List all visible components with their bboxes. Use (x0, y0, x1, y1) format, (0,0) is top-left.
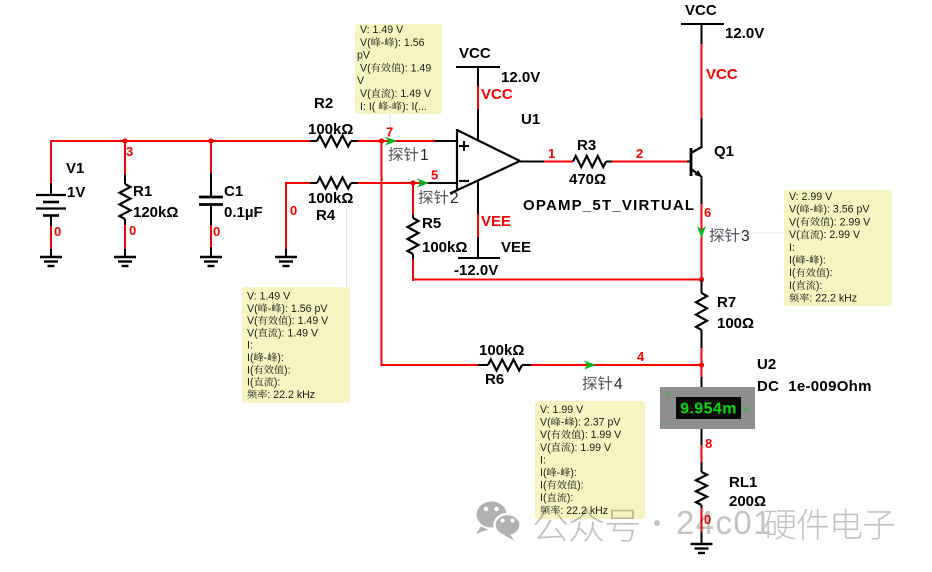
svg-text:3: 3 (741, 228, 750, 245)
svg-text:):: ): (819, 255, 825, 267)
svg-text:100Ω: 100Ω (717, 315, 754, 332)
svg-text:24c01: 24c01 (676, 504, 773, 541)
svg-text:12.0V: 12.0V (501, 69, 540, 86)
svg-text:2: 2 (636, 146, 643, 161)
svg-text:): 1.99 V: ): 1.99 V (581, 429, 622, 441)
svg-text:V(: V( (360, 88, 371, 100)
svg-text:V(: V( (247, 315, 258, 327)
svg-text:):: ): (277, 352, 283, 364)
svg-text:VCC: VCC (685, 2, 717, 19)
svg-text:): 1.49 V: ): 1.49 V (278, 327, 319, 339)
svg-text:R2: R2 (314, 95, 333, 112)
svg-text:0: 0 (54, 224, 61, 239)
svg-text:I(: I( (540, 492, 547, 504)
svg-text:):: ): (274, 377, 280, 389)
svg-text:4: 4 (614, 376, 623, 393)
svg-text:-: - (268, 303, 272, 315)
svg-text:R3: R3 (577, 137, 596, 154)
svg-text:RL1: RL1 (729, 474, 757, 491)
svg-text:3: 3 (126, 144, 133, 159)
svg-text:V(: V( (360, 62, 371, 74)
svg-text:): 3.56 pV: ): 3.56 pV (824, 204, 871, 216)
svg-text:V: 1.99 V: V: 1.99 V (540, 404, 584, 416)
svg-text:V(: V( (540, 417, 551, 429)
svg-text:I:: I: (247, 340, 253, 352)
svg-text:VEE: VEE (481, 213, 511, 230)
svg-text:1: 1 (420, 147, 429, 164)
svg-text:VCC: VCC (706, 66, 738, 83)
svg-text:: 22.2 kHz: : 22.2 kHz (809, 293, 857, 305)
svg-text:9.954m: 9.954m (680, 401, 737, 418)
svg-text:I(: I( (789, 280, 796, 292)
svg-text:VCC: VCC (459, 45, 491, 62)
svg-text:0: 0 (290, 203, 297, 218)
svg-text:5: 5 (431, 168, 438, 183)
svg-text:I(: I( (540, 467, 547, 479)
svg-text:): 1.49: ): 1.49 (401, 62, 431, 74)
svg-text:):: ): (816, 280, 822, 292)
svg-text:): 2.37 pV: ): 2.37 pV (575, 417, 622, 429)
svg-text:VEE: VEE (501, 239, 531, 256)
svg-text:Q1: Q1 (714, 143, 734, 160)
svg-text:U1: U1 (521, 111, 540, 128)
svg-text:R1: R1 (133, 183, 152, 200)
svg-text:U2: U2 (757, 356, 776, 373)
svg-text:I(: I( (247, 364, 254, 376)
svg-text:A: A (744, 404, 750, 414)
svg-text:100kΩ: 100kΩ (308, 121, 353, 138)
svg-text:: 22.2 kHz: : 22.2 kHz (560, 505, 608, 517)
svg-text:I(: I( (247, 377, 254, 389)
svg-text:0.1µF: 0.1µF (224, 204, 263, 221)
svg-text:V: 1.49 V: V: 1.49 V (247, 291, 291, 303)
svg-text:VCC: VCC (481, 86, 513, 103)
svg-text:2: 2 (450, 190, 459, 207)
svg-text:): 1.49 V: ): 1.49 V (391, 88, 432, 100)
svg-text:-: - (806, 255, 810, 267)
svg-text:-: - (810, 204, 814, 216)
svg-text:I(: I( (540, 480, 547, 492)
svg-text:8: 8 (705, 436, 712, 451)
svg-text:V: 1.49 V: V: 1.49 V (360, 24, 404, 36)
svg-text:R6: R6 (485, 371, 504, 388)
svg-text:: 22.2 kHz: : 22.2 kHz (267, 389, 315, 401)
svg-text:):: ): (567, 492, 573, 504)
svg-text:470Ω: 470Ω (569, 171, 606, 188)
svg-text:): 1.49 V: ): 1.49 V (288, 315, 329, 327)
svg-text:120kΩ: 120kΩ (133, 204, 178, 221)
svg-text:I(: I( (247, 352, 254, 364)
svg-text:V(: V( (360, 37, 371, 49)
svg-text:V: 2.99 V: V: 2.99 V (789, 191, 833, 203)
svg-text:): 1.99 V: ): 1.99 V (571, 442, 612, 454)
svg-text:V(: V( (540, 429, 551, 441)
svg-text:V(: V( (247, 327, 258, 339)
svg-text:):: ): (284, 364, 290, 376)
svg-text:R5: R5 (422, 215, 441, 232)
svg-text:0: 0 (129, 223, 136, 238)
svg-text:6: 6 (704, 205, 711, 220)
svg-text:): I(...: ): I(... (402, 101, 427, 113)
svg-text:pV: pV (357, 50, 371, 62)
svg-text:1V: 1V (67, 184, 85, 201)
svg-text:I:: I: (540, 454, 546, 466)
svg-text:): 2.99 V: ): 2.99 V (820, 229, 861, 241)
svg-text:):: ): (577, 480, 583, 492)
svg-text:+: + (665, 390, 670, 400)
svg-text:): 2.99 V: ): 2.99 V (830, 216, 871, 228)
svg-text:100kΩ: 100kΩ (422, 239, 467, 256)
svg-text:-: - (561, 417, 565, 429)
svg-text:12.0V: 12.0V (725, 25, 764, 42)
svg-text:100kΩ: 100kΩ (308, 190, 353, 207)
svg-text:7: 7 (386, 125, 393, 140)
svg-text:V(: V( (789, 216, 800, 228)
svg-text:):: ): (826, 267, 832, 279)
svg-text:): 1.56 pV: ): 1.56 pV (282, 303, 329, 315)
svg-text:I(: I( (789, 255, 796, 267)
svg-text:R4: R4 (316, 207, 336, 224)
svg-text:4: 4 (637, 349, 645, 364)
svg-text:C1: C1 (224, 183, 243, 200)
svg-text:-: - (665, 417, 669, 429)
svg-text:-: - (388, 101, 392, 113)
svg-text:R7: R7 (717, 294, 736, 311)
svg-text:-: - (381, 37, 385, 49)
svg-text:V1: V1 (66, 160, 84, 177)
svg-text:): 1.56: ): 1.56 (395, 37, 425, 49)
svg-text:DC 1e-009Ohm: DC 1e-009Ohm (757, 378, 872, 395)
svg-text:1: 1 (548, 146, 555, 161)
svg-text:V(: V( (247, 303, 258, 315)
svg-text:-12.0V: -12.0V (454, 262, 498, 279)
svg-text:V(: V( (789, 204, 800, 216)
svg-text:I:: I: (789, 242, 795, 254)
svg-text:V: V (357, 75, 365, 87)
svg-text:I(: I( (789, 267, 796, 279)
svg-text:0: 0 (213, 224, 220, 239)
svg-text:):: ): (570, 467, 576, 479)
svg-text:-: - (557, 467, 561, 479)
svg-text:100kΩ: 100kΩ (479, 342, 524, 359)
svg-text:V(: V( (789, 229, 800, 241)
svg-text:V(: V( (540, 442, 551, 454)
svg-text:-: - (264, 352, 268, 364)
svg-text:OPAMP_5T_VIRTUAL: OPAMP_5T_VIRTUAL (523, 197, 695, 214)
svg-text:I: I(: I: I( (360, 101, 376, 113)
